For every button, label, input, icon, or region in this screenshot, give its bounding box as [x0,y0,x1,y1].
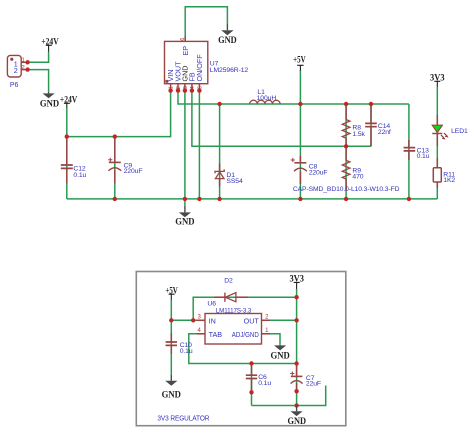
svg-text:CAP-SMD_BD10.0-L10.3-W10.3-FD: CAP-SMD_BD10.0-L10.3-W10.3-FD [293,186,400,193]
svg-text:0.1u: 0.1u [180,348,193,355]
svg-text:ON/OFF: ON/OFF [195,54,204,82]
svg-text:6: 6 [180,38,186,41]
svg-text:2: 2 [22,65,25,71]
svg-text:GND: GND [162,390,181,401]
svg-text:LM2596R-12: LM2596R-12 [210,67,249,74]
svg-text:1K2: 1K2 [443,177,455,184]
svg-text:LM1117S-3.3: LM1117S-3.3 [216,307,252,314]
svg-text:0.1u: 0.1u [73,172,86,179]
svg-text:EP: EP [181,46,190,56]
svg-text:ADJ/GND: ADJ/GND [232,330,259,339]
svg-text:22nf: 22nf [378,129,391,136]
svg-text:2: 2 [14,66,18,75]
svg-text:+24V: +24V [41,37,58,48]
svg-text:3V3 REGULATOR: 3V3 REGULATOR [157,415,209,422]
svg-text:470: 470 [352,174,363,181]
svg-text:22uF: 22uF [306,380,321,387]
svg-text:IN: IN [209,316,216,325]
svg-text:GND: GND [218,35,237,46]
svg-text:GND: GND [175,217,194,228]
svg-text:LED1: LED1 [451,128,468,135]
svg-text:1.5k: 1.5k [352,131,365,138]
svg-text:+5V: +5V [293,54,306,65]
svg-text:GND: GND [270,351,289,362]
svg-text:SS54: SS54 [226,178,243,185]
svg-text:220uF: 220uF [309,170,328,177]
svg-text:OUT: OUT [244,316,260,325]
svg-text:1: 1 [22,57,25,63]
svg-text:0.1u: 0.1u [417,153,430,160]
svg-text:GND: GND [40,98,59,109]
svg-text:0.1u: 0.1u [258,380,271,387]
svg-text:TAB: TAB [209,330,223,339]
svg-text:GND: GND [288,416,307,427]
svg-text:220uF: 220uF [124,168,143,175]
svg-text:100uH: 100uH [257,95,277,102]
svg-text:D2: D2 [224,277,233,284]
svg-text:P6: P6 [10,82,19,89]
